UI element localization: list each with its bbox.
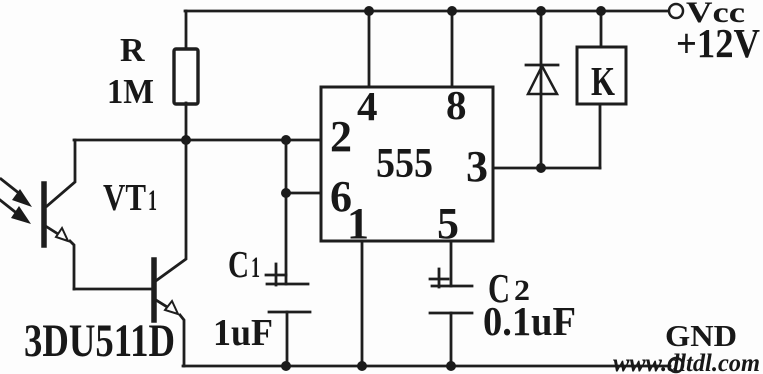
node Vcc terminal <box>669 4 683 18</box>
svg-text:2: 2 <box>330 112 352 161</box>
light arrow 1 <box>1 179 32 207</box>
svg-text:1: 1 <box>251 251 260 284</box>
wire pin3 output line <box>493 167 600 170</box>
wire pin2/pin6 branch down to C1 <box>285 140 288 284</box>
wire C1 bottom lead <box>286 312 289 366</box>
svg-text:C: C <box>228 244 249 286</box>
node junction diode/pin3 <box>536 163 546 173</box>
diode VD <box>526 65 558 94</box>
node GND terminal <box>669 358 683 372</box>
node junction pin6 <box>281 188 291 198</box>
svg-text:3: 3 <box>466 142 488 191</box>
svg-text:1: 1 <box>347 199 369 248</box>
node junction C2/gnd <box>446 361 456 371</box>
svg-text:4: 4 <box>357 83 378 129</box>
transistor Q1 base bar <box>41 184 47 245</box>
capacitor C1 <box>266 264 310 312</box>
wire Q1 collector riser <box>47 140 75 206</box>
wire ground rail <box>183 365 670 368</box>
capacitor C2 <box>430 269 472 313</box>
wire Q2 base lead <box>74 288 152 291</box>
node junction diode top <box>536 6 546 16</box>
resistor R <box>174 49 198 104</box>
wire pin6 lead <box>286 192 321 195</box>
node junction resistor/collector <box>181 135 191 145</box>
wire relay top lead <box>600 11 603 47</box>
wire pin1 lead to ground <box>361 241 364 366</box>
node junction pin1/gnd <box>357 361 367 371</box>
wire relay bottom lead <box>599 104 602 168</box>
transistor Q2 base bar <box>151 260 157 320</box>
transistor Q1 emitter <box>47 227 74 289</box>
wire pin4 lead <box>368 11 371 87</box>
svg-text:GND: GND <box>665 318 737 353</box>
svg-text:5: 5 <box>437 199 459 248</box>
wire C2 bottom lead <box>450 313 453 366</box>
node junction pin8 <box>447 6 457 16</box>
svg-text:3DU511D: 3DU511D <box>24 315 175 367</box>
wire diode lead <box>540 11 543 168</box>
svg-text:1uF: 1uF <box>213 312 273 354</box>
IC 555 body <box>321 87 493 241</box>
wire Q2 collector riser <box>157 140 186 280</box>
wire Vcc top rail <box>185 10 669 13</box>
svg-text:0.1uF: 0.1uF <box>483 298 576 344</box>
node junction pin2 branch <box>281 135 291 145</box>
transistor Q2 emitter <box>156 300 184 366</box>
svg-text:555: 555 <box>376 141 433 187</box>
svg-text:www.dltdl.com: www.dltdl.com <box>613 350 760 374</box>
node junction relay top <box>596 6 606 16</box>
svg-text:R: R <box>120 32 145 69</box>
svg-text:VT: VT <box>103 177 146 219</box>
wire pin2 line <box>74 139 321 142</box>
light arrow 2 <box>0 200 31 224</box>
svg-text:1: 1 <box>148 184 157 217</box>
svg-text:1M: 1M <box>107 72 154 111</box>
wire resistor bottom lead <box>185 103 188 140</box>
svg-text:K: K <box>591 58 615 104</box>
wire resistor top lead <box>185 11 188 49</box>
wire pin8 lead <box>451 11 454 87</box>
wire pin5 lead to C2 <box>450 241 453 286</box>
svg-text:+12V: +12V <box>676 20 760 66</box>
node junction pin4 <box>364 6 374 16</box>
svg-text:8: 8 <box>446 82 467 128</box>
relay K body <box>577 47 626 104</box>
node junction C1/gnd <box>281 361 291 371</box>
